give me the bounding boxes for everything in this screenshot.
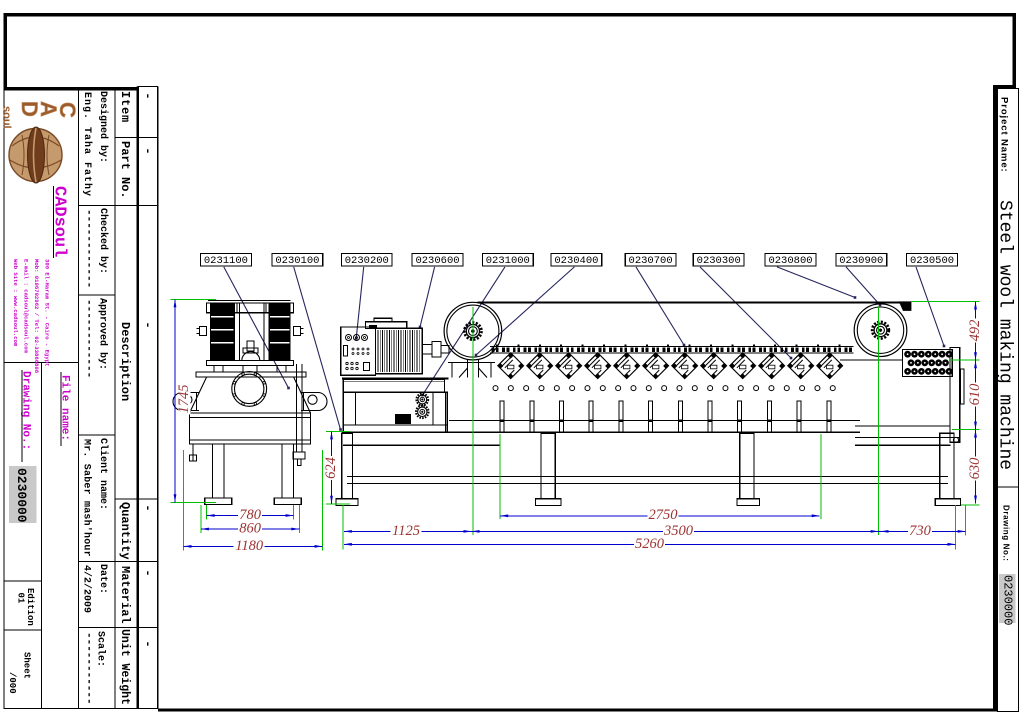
svg-text:D: D — [17, 101, 42, 117]
tool holder diamond 11 — [788, 353, 814, 379]
machine leg 2 — [536, 433, 562, 505]
right end lower lines — [855, 426, 960, 438]
dimension 2750 — [500, 507, 820, 523]
svg-text:Drawing No.:: Drawing No.: — [1002, 505, 1011, 562]
svg-text:860: 860 — [239, 520, 262, 536]
right strip box — [998, 89, 1019, 712]
svg-text:0230500: 0230500 — [910, 255, 954, 267]
leader line 0231100 — [224, 267, 290, 389]
callout box 0230500 — [907, 254, 958, 268]
end view: upper plate — [207, 361, 294, 366]
drive pulley — [444, 302, 502, 360]
dimension 860 — [201, 520, 299, 536]
dimension 780 — [207, 507, 294, 523]
svg-text:soul: soul — [1, 106, 13, 129]
callout box 0230300 — [693, 254, 744, 268]
end view: fittings row — [214, 365, 286, 372]
tool holder diamond 3 — [556, 353, 582, 379]
svg-text:E-mail : cadsoul@cadsoul.com: E-mail : cadsoul@cadsoul.com — [23, 259, 30, 354]
svg-text:0231100: 0231100 — [204, 255, 248, 267]
svg-text:4/2/2009: 4/2/2009 — [81, 565, 93, 613]
tool holder diamond 7 — [672, 353, 698, 379]
dash entries column — [141, 92, 155, 647]
belt lower run — [840, 359, 903, 361]
leader line 0231000 — [421, 267, 505, 396]
leader line 0230400 — [475, 267, 575, 356]
dimension 1125 — [344, 523, 472, 539]
end view: top rail — [207, 301, 294, 313]
svg-text:CADsoul: CADsoul — [50, 186, 69, 257]
callout box 0230600 — [412, 254, 463, 268]
svg-text:-: - — [141, 640, 155, 647]
extension lines (green) — [171, 299, 980, 550]
svg-text:01: 01 — [16, 593, 26, 604]
logo address lines — [12, 259, 51, 374]
svg-text:0230100: 0230100 — [275, 255, 319, 267]
tool holder diamond 9 — [730, 353, 756, 379]
tool holder diamond 1 — [498, 353, 524, 379]
dimension 1180 — [184, 538, 323, 554]
svg-text:-: - — [141, 504, 155, 511]
svg-text:-: - — [141, 321, 155, 328]
leader line 0230500 — [916, 267, 945, 347]
dimension 3500 — [472, 523, 879, 539]
end view: left roll block — [210, 303, 235, 361]
callout box 0230200 — [341, 254, 392, 268]
motor body with fins — [376, 328, 423, 373]
svg-text:Client name:: Client name: — [97, 438, 109, 510]
tool holder diamond 12 — [817, 353, 843, 379]
tail pulley — [854, 304, 907, 357]
end view: right leg — [282, 444, 294, 498]
svg-text:Material: Material — [118, 566, 132, 624]
motor control box — [341, 327, 376, 375]
right thin plate — [961, 369, 965, 404]
frame top chord — [342, 432, 860, 434]
svg-text:2750: 2750 — [649, 507, 679, 523]
gearbox housing — [343, 392, 447, 432]
svg-text:Project Name:: Project Name: — [999, 97, 1010, 173]
svg-text:Part No.: Part No. — [118, 141, 132, 199]
leader line 0230200 — [355, 267, 364, 340]
end view: drain pipe — [293, 364, 305, 466]
svg-text:0230700: 0230700 — [629, 255, 673, 267]
svg-text:Mob: 0106702962 / Tel: 02-3386: Mob: 0106702962 / Tel: 02-33866808 — [33, 259, 40, 374]
svg-text:Steel wool making machine: Steel wool making machine — [995, 200, 1015, 470]
drawing number right 0230000 — [999, 574, 1016, 623]
tool holder diamond 8 — [701, 353, 727, 379]
svg-text:Designed by:: Designed by: — [97, 91, 109, 163]
svg-text:-: - — [141, 92, 155, 99]
CADsoul emblem — [9, 127, 62, 183]
svg-text:624: 624 — [323, 457, 339, 479]
end view: right bolt — [294, 327, 304, 336]
end view: left drain stub — [190, 444, 197, 461]
svg-text:0230300: 0230300 — [697, 255, 741, 267]
dimension 624 — [323, 431, 339, 503]
dimension 492 — [967, 302, 983, 361]
end view: left leg — [213, 444, 225, 498]
machine leg 4 — [935, 433, 960, 505]
svg-text:Eng. Taha Fathy: Eng. Taha Fathy — [81, 92, 93, 197]
belt tension wedge — [899, 301, 912, 311]
mounting holes row — [493, 386, 835, 391]
end view: left side pipe — [173, 393, 199, 411]
svg-text:492: 492 — [967, 320, 983, 342]
svg-text:/000: /000 — [7, 672, 17, 694]
bed rail line — [449, 420, 860, 422]
end view: wide plate — [196, 372, 306, 377]
drawing number 0230000 (gray box) — [9, 466, 37, 523]
leader line 0230600 — [419, 267, 435, 328]
CADsoul logo letters — [1, 101, 81, 129]
svg-text:0230400: 0230400 — [554, 255, 598, 267]
svg-text:-: - — [141, 569, 155, 576]
leader line 0230300 — [700, 267, 792, 359]
winder unit hatched box — [903, 350, 953, 377]
right end bolt — [953, 437, 958, 442]
end view: right foot — [274, 498, 301, 505]
svg-text:630: 630 — [967, 457, 983, 480]
title block grid — [4, 87, 158, 709]
dimension 730 — [879, 523, 966, 539]
machine leg 3 — [737, 433, 760, 505]
scraper fingers — [500, 401, 832, 432]
svg-text:730: 730 — [909, 523, 932, 539]
svg-text:1180: 1180 — [235, 538, 264, 554]
callout box 0231000 — [482, 254, 533, 268]
svg-text:Sheet: Sheet — [22, 652, 32, 679]
svg-text:-----------: ----------- — [83, 632, 95, 705]
end view: right side pipe — [301, 393, 327, 411]
chain rail — [490, 344, 854, 353]
end view: flange circle — [232, 372, 267, 407]
end view: inner frame — [235, 303, 269, 361]
callout box 0230100 — [272, 254, 323, 268]
tool holder diamond 10 — [759, 353, 785, 379]
end view: right roll block — [269, 303, 291, 361]
svg-text:Web Site : www.cadsoul.com: Web Site : www.cadsoul.com — [12, 259, 19, 347]
machine base line — [342, 378, 449, 380]
svg-text:------------: ------------ — [83, 299, 95, 378]
svg-text:File name:: File name: — [59, 375, 71, 441]
tool holder diamond 4 — [585, 353, 611, 379]
tool holder diamond 5 — [614, 353, 640, 379]
pulley support — [448, 360, 495, 378]
svg-text:3500: 3500 — [663, 523, 694, 539]
svg-text:Edition: Edition — [25, 588, 35, 626]
motor cap — [366, 318, 407, 328]
svg-text:1125: 1125 — [392, 523, 420, 539]
frame second line right — [855, 444, 951, 446]
svg-text:Scale:: Scale: — [95, 631, 107, 667]
svg-text:------------: ------------ — [83, 209, 95, 288]
svg-text:0230600: 0230600 — [415, 255, 459, 267]
leader line 0230100 — [294, 267, 342, 431]
svg-text:0230000: 0230000 — [14, 468, 29, 523]
svg-text:Mr. Saber mash'hour: Mr. Saber mash'hour — [81, 439, 93, 557]
gear pair — [416, 394, 429, 419]
callout box 0230700 — [625, 254, 676, 268]
leader line 0230800 — [777, 267, 856, 299]
belt top run — [478, 301, 912, 303]
end view: left bolt — [197, 327, 207, 336]
callout box 0230900 — [836, 254, 887, 268]
end view: main body — [190, 413, 311, 444]
dimension 5260 — [344, 536, 956, 552]
dimension 1745 — [174, 299, 192, 502]
svg-text:Quantity: Quantity — [118, 502, 132, 560]
dimension 610 — [967, 360, 983, 429]
svg-text:5260: 5260 — [635, 536, 665, 552]
svg-text:0230800: 0230800 — [768, 255, 812, 267]
motor shaft coupling — [422, 342, 449, 358]
svg-text:Approved by:: Approved by: — [97, 298, 109, 370]
end view: left foot — [205, 498, 232, 505]
svg-text:Checked by:: Checked by: — [97, 208, 109, 274]
svg-text:0230200: 0230200 — [345, 255, 389, 267]
leader line 0230900 — [846, 267, 881, 306]
svg-text:0230900: 0230900 — [839, 255, 883, 267]
svg-text:Drawing No.:: Drawing No.: — [20, 371, 32, 450]
svg-text:Item: Item — [118, 91, 132, 123]
frame stretcher — [347, 477, 948, 484]
svg-text:0231000: 0231000 — [486, 255, 530, 267]
svg-text:300 El-Haram St. - Cairo - Egy: 300 El-Haram St. - Cairo - Egypt — [44, 259, 51, 366]
gearbox shelf — [343, 380, 444, 393]
callout box 0230800 — [765, 254, 816, 268]
frame second line left — [343, 444, 500, 446]
tool holder diamond 6 — [643, 353, 669, 379]
dimension 630 — [967, 430, 983, 504]
oil sump block — [395, 414, 411, 424]
machine leg 1 — [336, 433, 358, 505]
svg-text:Date:: Date: — [97, 564, 108, 594]
tool holder diamond 2 — [527, 353, 553, 379]
right end plate — [950, 348, 960, 443]
callout box 0231100 — [201, 254, 252, 268]
svg-text:1745: 1745 — [176, 385, 192, 414]
svg-text:610: 610 — [967, 383, 983, 406]
svg-text:Description: Description — [118, 322, 132, 401]
leader line 0230700 — [636, 267, 685, 346]
svg-text:Unit Weight: Unit Weight — [118, 629, 131, 705]
end view: hood slants — [190, 377, 311, 413]
svg-text:-: - — [141, 147, 155, 154]
svg-text:0230000: 0230000 — [1001, 575, 1015, 625]
callout box 0230400 — [551, 254, 602, 268]
